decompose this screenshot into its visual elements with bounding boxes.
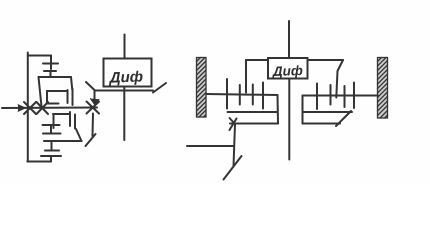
bracket lower: horizontal to tick: [53, 113, 70, 115]
carrier left vertical to shaft: [39, 77, 42, 107]
differential box U2 (right): [268, 58, 308, 79]
outer frame left vertical: [27, 53, 29, 162]
carrier bracket top left: [246, 59, 268, 61]
gear crossbar g2: [44, 70, 56, 72]
wire: carrier line under box U1: [95, 90, 153, 92]
differential box U1 (left): [104, 59, 152, 87]
gear tick B: [239, 85, 241, 105]
wire: brake vertical left: [234, 124, 236, 167]
carrier right drop to gear tick: [71, 77, 72, 90]
slash at right end of carrier line: [153, 83, 166, 93]
svg-text:Диф: Диф: [272, 63, 304, 79]
wall support left (hatched): [197, 58, 207, 118]
input arrow on shaft: [18, 105, 26, 112]
gear tick D' (right long): [316, 84, 318, 110]
bearing X3 at shaft right end: [87, 102, 100, 114]
gear tick upper outer: [72, 89, 74, 105]
gear tick A (left long): [226, 79, 228, 109]
wire: horizontal output to left edge: [187, 145, 234, 147]
wire: left case line lower: [230, 123, 278, 125]
stub bottom line to g5: [51, 141, 53, 151]
carrier bottom line: [44, 140, 82, 142]
bearing X2 on shaft: [37, 102, 49, 114]
stub g3-g4: [50, 125, 52, 134]
wire: input vertical above box U2: [288, 21, 290, 58]
wall support right (hatched): [378, 58, 388, 119]
stub g6 to bottom frame: [50, 156, 52, 162]
slash at left end of carrier line: [86, 82, 95, 91]
carrier arm right: [336, 60, 343, 98]
wire: left shaft-end drop: [277, 95, 280, 124]
outer frame bottom horizontal: [27, 161, 51, 163]
wire: vertical above box U1: [124, 35, 126, 59]
bracket upper: lower lip: [47, 103, 59, 105]
gear tick A' (right long): [353, 83, 355, 109]
gear crossbar g4: [43, 133, 61, 135]
bracket upper: vertical: [46, 91, 48, 104]
wire: right case line lower: [303, 123, 341, 125]
outer frame top horizontal: [28, 55, 51, 57]
bracket upper: horizontal to tick: [47, 90, 67, 92]
gear tick C: [252, 85, 254, 105]
gear crossbar g6: [41, 155, 61, 157]
gear tick C': [330, 85, 332, 105]
wire: right shaft-end drop: [302, 96, 304, 124]
bearing X1 on shaft: [24, 102, 36, 114]
diagonal into left lower line: [230, 118, 236, 124]
bracket lower: vertical: [53, 114, 55, 128]
gear tick lower inner: [69, 112, 71, 126]
slash tick at right lower line end: [336, 111, 351, 126]
link tick to bottom line: [76, 129, 82, 141]
gear stub on top frame: [50, 56, 52, 70]
stub g2 to carrier: [50, 71, 52, 77]
wire: vertical below box U1: [123, 87, 125, 141]
slash hook at brake bottom: [224, 156, 242, 180]
gear tick D (left long): [262, 83, 264, 109]
wire: output vertical below box U2: [288, 79, 290, 160]
gear crossbar g1: [43, 63, 58, 65]
down arrow to X3: [90, 91, 99, 105]
wire: right output shaft: [303, 95, 379, 97]
slash tick below X3: [86, 134, 96, 146]
gear tick lower outer: [74, 115, 76, 129]
carrier top line: [39, 76, 72, 78]
slash tick at left lower line end: [230, 119, 237, 131]
wire: left output shaft: [207, 94, 278, 95]
wire: right case line upper: [303, 111, 353, 113]
carrier bracket top right: [308, 59, 344, 61]
gear tick upper inner: [67, 90, 69, 103]
gear crossbar g3: [43, 124, 60, 126]
wire: left case line upper: [228, 111, 278, 113]
carrier arm left: [245, 60, 247, 93]
wire: vertical below X3: [92, 114, 95, 137]
wire: input shaft horizontal: [2, 107, 97, 110]
gear tick B': [344, 86, 346, 107]
svg-text:Диф: Диф: [107, 68, 143, 86]
gear crossbar g5: [45, 150, 59, 152]
